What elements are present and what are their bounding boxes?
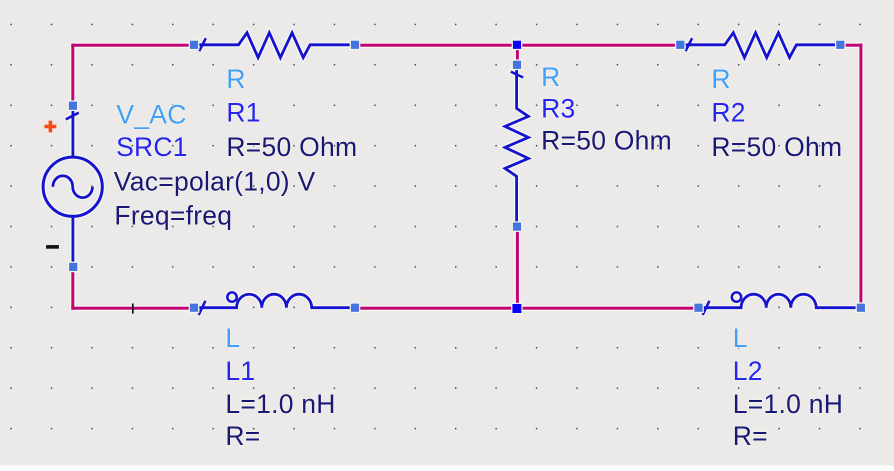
- svg-text:R=50 Ohm: R=50 Ohm: [226, 132, 357, 162]
- svg-text:R=50 Ohm: R=50 Ohm: [711, 132, 842, 162]
- svg-text:SRC1: SRC1: [116, 132, 188, 162]
- svg-text:L: L: [225, 323, 240, 353]
- svg-text:L2: L2: [733, 356, 763, 386]
- svg-text:R=50 Ohm: R=50 Ohm: [541, 126, 672, 156]
- svg-text:R2: R2: [711, 97, 745, 127]
- svg-text:R: R: [541, 62, 560, 92]
- svg-text:V_AC: V_AC: [116, 100, 186, 130]
- svg-text:R3: R3: [541, 93, 575, 123]
- svg-text:L: L: [733, 323, 748, 353]
- svg-text:L=1.0 nH: L=1.0 nH: [733, 389, 843, 419]
- svg-text:R: R: [226, 64, 245, 94]
- svg-text:Vac=polar(1,0) V: Vac=polar(1,0) V: [114, 166, 316, 196]
- svg-text:L1: L1: [225, 356, 255, 386]
- svg-text:R1: R1: [226, 97, 260, 127]
- svg-text:R: R: [711, 64, 730, 94]
- svg-text:R=: R=: [225, 421, 260, 451]
- svg-text:L=1.0 nH: L=1.0 nH: [225, 389, 335, 419]
- svg-text:Freq=freq: Freq=freq: [114, 200, 232, 230]
- svg-text:R=: R=: [733, 421, 768, 451]
